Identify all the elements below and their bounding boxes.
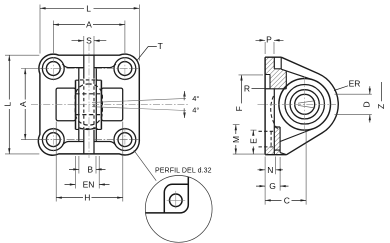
svg-text:A: A <box>18 101 28 107</box>
svg-text:4°: 4° <box>192 106 199 115</box>
svg-text:L: L <box>2 102 12 107</box>
svg-text:T: T <box>158 41 163 51</box>
svg-text:S: S <box>86 36 92 46</box>
svg-text:N: N <box>267 165 273 175</box>
svg-text:R: R <box>244 83 250 93</box>
svg-text:ER: ER <box>349 79 361 89</box>
svg-text:P: P <box>266 35 272 45</box>
svg-text:4°: 4° <box>192 94 199 103</box>
svg-text:D: D <box>361 101 371 107</box>
svg-text:C: C <box>284 195 290 205</box>
svg-text:Z: Z <box>376 104 386 109</box>
svg-text:B: B <box>87 164 93 174</box>
svg-text:E: E <box>248 138 258 144</box>
svg-text:A: A <box>86 20 92 30</box>
svg-text:F: F <box>234 106 244 111</box>
svg-text:PERFIL DEL d.32: PERFIL DEL d.32 <box>155 168 212 175</box>
svg-text:EN: EN <box>83 180 95 190</box>
svg-text:L: L <box>86 3 91 13</box>
svg-text:H: H <box>84 193 90 203</box>
svg-text:M: M <box>231 136 241 143</box>
svg-text:G: G <box>269 181 276 191</box>
